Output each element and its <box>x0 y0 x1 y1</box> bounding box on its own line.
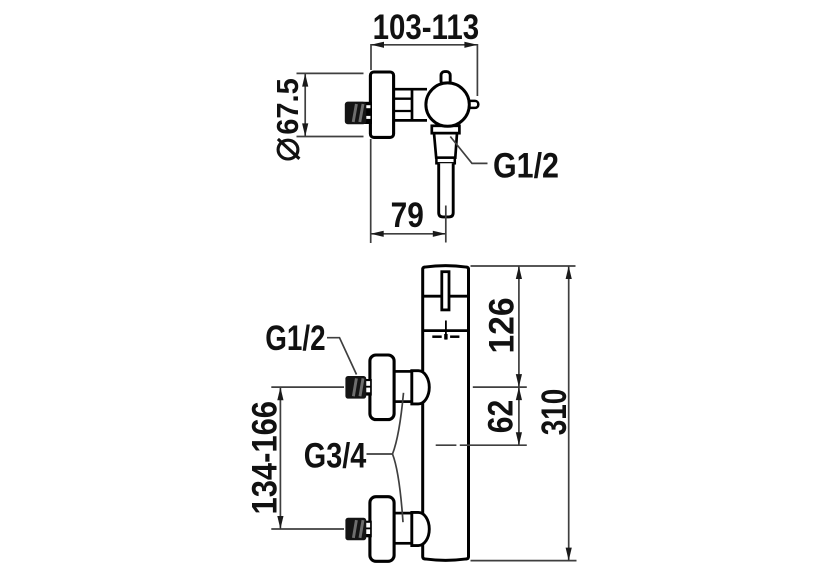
svg-text:103-113: 103-113 <box>373 8 480 47</box>
svg-text:62: 62 <box>482 400 521 434</box>
svg-text:G1/2: G1/2 <box>493 146 559 185</box>
svg-text:310: 310 <box>535 389 574 436</box>
svg-text:79: 79 <box>391 196 424 235</box>
svg-text:134-166: 134-166 <box>245 401 284 515</box>
svg-text:126: 126 <box>482 298 521 354</box>
svg-text:67.5: 67.5 <box>270 78 305 135</box>
svg-text:G1/2: G1/2 <box>265 319 325 358</box>
svg-text:G3/4: G3/4 <box>304 437 367 476</box>
